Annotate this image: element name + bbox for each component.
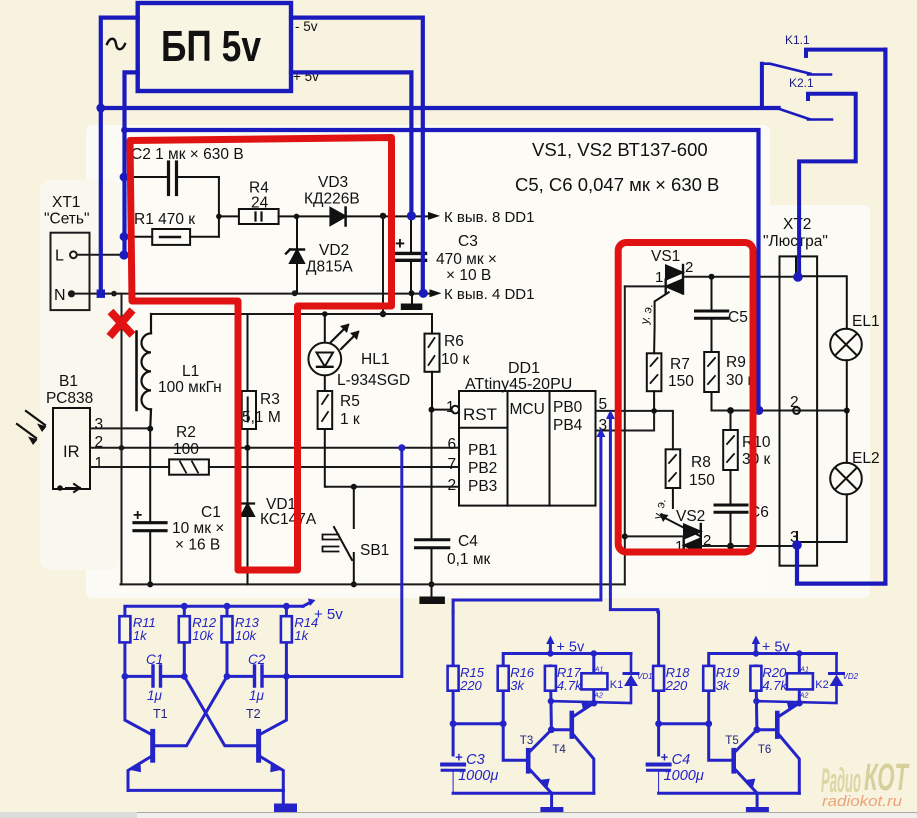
svg-text:R7: R7 xyxy=(670,356,690,373)
triac VS2 xyxy=(675,508,711,555)
svg-text:0,1 мк: 0,1 мк xyxy=(447,551,491,568)
rail VCC lower (L1 top / HL1 / R6) xyxy=(152,311,433,317)
wire RST pin1 xyxy=(432,399,460,416)
svg-text:БП 5v: БП 5v xyxy=(161,22,261,71)
wire VS1 term1 to common node xyxy=(625,285,666,287)
svg-text:PB4: PB4 xyxy=(553,417,583,434)
wire L (XT1 L to node) xyxy=(77,254,124,256)
svg-text:7: 7 xyxy=(448,456,457,473)
svg-text:1: 1 xyxy=(95,455,104,472)
wire PB0 (pin 5) to R8 xyxy=(596,408,673,449)
svg-text:1μ: 1μ xyxy=(249,688,265,703)
wire B1 pin3 to L1 bottom node xyxy=(90,426,153,432)
lamp EL2 xyxy=(797,411,880,543)
svg-text:220: 220 xyxy=(665,678,688,693)
svg-text:R5: R5 xyxy=(340,393,360,410)
svg-text:× 16 В: × 16 В xyxy=(175,537,220,554)
capacitor C6 xyxy=(715,504,769,549)
svg-text:× 10 В: × 10 В xyxy=(446,267,491,284)
svg-text:K1: K1 xyxy=(610,679,623,691)
svg-text:1μ: 1μ xyxy=(147,688,163,703)
label у.э. VS1 xyxy=(637,302,655,326)
svg-text:RST: RST xyxy=(463,405,497,424)
svg-text:100 мкГн: 100 мкГн xyxy=(158,379,222,396)
title VS1, VS2 BT137-600 xyxy=(532,139,708,160)
wire AC input 2 (to L node) xyxy=(119,72,137,259)
svg-text:VD3: VD3 xyxy=(318,174,348,191)
wire N rail (XT1 N to К выв.4 arrow) xyxy=(75,290,433,296)
svg-text:A2: A2 xyxy=(799,693,809,700)
resistor R5 1к xyxy=(318,391,360,487)
svg-text:"Люстра": "Люстра" xyxy=(763,233,828,250)
capacitor C4 1000u xyxy=(648,750,704,794)
svg-text:C4: C4 xyxy=(672,752,691,768)
svg-text:T4: T4 xyxy=(552,744,566,756)
transistor T4 xyxy=(551,701,593,793)
svg-text:С3: С3 xyxy=(458,233,478,250)
svg-text:SB1: SB1 xyxy=(360,542,389,559)
svg-text:T5: T5 xyxy=(725,735,738,747)
title C5, C6 0,047 мк × 630 В xyxy=(515,174,719,195)
svg-text:DD1: DD1 xyxy=(508,360,540,377)
multivibrator +5v rail xyxy=(125,599,343,677)
svg-text:PB0: PB0 xyxy=(553,399,583,416)
wire VS1 term2 to XT2 pin1 xyxy=(683,274,798,280)
relay K2 xyxy=(787,654,829,707)
svg-text:4.7k: 4.7k xyxy=(557,678,583,693)
vcc stub (pin8 rail down to lower rail) xyxy=(380,216,386,317)
capacitor C2 1u xyxy=(224,652,290,703)
svg-text:+ 5v: + 5v xyxy=(314,606,343,623)
bottom rail (GND) xyxy=(121,583,625,585)
svg-text:PB2: PB2 xyxy=(468,460,497,477)
wire C2/R1 right node to R4 xyxy=(216,177,239,237)
svg-text:radiokot.ru: radiokot.ru xyxy=(822,793,903,810)
svg-text:КС147А: КС147А xyxy=(260,511,317,528)
red highlight box (VS1/VS2 area) xyxy=(618,243,753,553)
triac VS1 xyxy=(651,248,693,294)
svg-text:В1: В1 xyxy=(59,373,78,390)
svg-text:10k: 10k xyxy=(192,628,214,643)
wire resistor leads R12-R14 xyxy=(184,606,286,676)
svg-text:HL1: HL1 xyxy=(361,351,389,368)
svg-text:"Сеть": "Сеть" xyxy=(44,211,89,228)
svg-text:100: 100 xyxy=(173,441,199,458)
IR receiver B1 PC838 xyxy=(17,373,103,492)
bottom scrollbar strip xyxy=(0,812,917,818)
relay contact K1.1 xyxy=(762,33,886,108)
svg-text:L-934SGD: L-934SGD xyxy=(337,372,410,389)
zener VD1 КС147А xyxy=(237,448,317,585)
relay contact K2.1 xyxy=(779,76,856,282)
svg-text:R2: R2 xyxy=(176,424,196,441)
wire VS2 term2 to XT2 pin3 xyxy=(701,545,797,547)
svg-text:C3: C3 xyxy=(466,752,485,768)
capacitor C3 470мк xyxy=(395,216,497,293)
svg-text:10 к: 10 к xyxy=(441,351,470,368)
svg-text:VD1: VD1 xyxy=(637,672,653,681)
wire PB4 (pin 3) to R7 xyxy=(596,411,655,431)
resistor R10 30к xyxy=(723,411,771,504)
+5v rail block K2 xyxy=(709,636,837,666)
node vertical VS1.1-VS2.1 xyxy=(622,286,628,584)
svg-text:1: 1 xyxy=(446,399,455,416)
relay K1 xyxy=(581,654,623,707)
resistor R9 30к xyxy=(704,352,754,411)
watermark Радио КОТ xyxy=(821,757,910,810)
+5v rail block K1 xyxy=(503,636,631,666)
capacitor C3 1000u xyxy=(442,750,498,794)
svg-text:PB1: PB1 xyxy=(468,442,497,459)
flyback diode VD1 xyxy=(551,654,653,704)
svg-text:R8: R8 xyxy=(691,454,711,471)
resistor R20 4.7k xyxy=(750,665,788,730)
svg-text:+: + xyxy=(395,234,405,253)
transistor T1 xyxy=(125,676,227,790)
svg-text:+: + xyxy=(455,750,463,765)
svg-text:EL2: EL2 xyxy=(852,450,880,467)
svg-text:+ 5v: + 5v xyxy=(762,640,791,656)
svg-text:R1 470 к: R1 470 к xyxy=(134,211,195,228)
svg-text:С5, С6 0,047 мк × 630 В: С5, С6 0,047 мк × 630 В xyxy=(515,174,719,195)
wire N to relay commons (long horizontal) xyxy=(96,104,778,113)
wire B1 pin2 / PB1 (pin 6) xyxy=(90,445,459,451)
ground rail block K1 xyxy=(453,793,594,814)
svg-text:10 мк ×: 10 мк × xyxy=(172,520,224,537)
red X cancellation mark xyxy=(110,310,133,337)
svg-text:T6: T6 xyxy=(758,744,771,756)
ground symbol at C4 xyxy=(419,584,445,604)
svg-text:N: N xyxy=(54,287,66,304)
resistor R7 150 xyxy=(647,292,694,411)
resistor R3 5,1М xyxy=(242,314,281,448)
svg-text:3k: 3k xyxy=(510,678,525,693)
svg-text:IR: IR xyxy=(63,443,80,461)
MCU DD1 ATtiny45-20PU xyxy=(448,360,608,506)
gate arrow VS2 xyxy=(660,514,701,537)
flyback diode VD2 xyxy=(756,654,858,704)
svg-text:K2.1: K2.1 xyxy=(789,76,814,90)
transistor T6 xyxy=(757,701,799,793)
svg-text:T2: T2 xyxy=(246,707,261,721)
svg-text:A1: A1 xyxy=(799,667,809,674)
zener VD2 Д815А xyxy=(286,216,353,293)
wire PB0 to R18 block xyxy=(606,410,658,612)
svg-text:L: L xyxy=(55,248,64,265)
svg-text:K1.1: K1.1 xyxy=(785,33,810,47)
svg-text:220: 220 xyxy=(459,678,482,693)
svg-text:R3: R3 xyxy=(260,391,280,408)
svg-text:К выв. 8 DD1: К выв. 8 DD1 xyxy=(444,209,534,226)
resistor R6 10к xyxy=(425,314,470,413)
wire AC input 1 (to N) xyxy=(97,18,138,298)
svg-text:150: 150 xyxy=(668,373,694,390)
svg-text:1k: 1k xyxy=(294,628,309,643)
svg-text:150: 150 xyxy=(689,472,715,489)
resistor R2 100 xyxy=(169,424,209,475)
ground rail block K2 xyxy=(659,793,800,814)
svg-text:С2 1 мк × 630 В: С2 1 мк × 630 В xyxy=(131,146,244,163)
svg-text:1k: 1k xyxy=(133,628,148,643)
svg-text:РС838: РС838 xyxy=(46,390,93,407)
resistor R15 220 xyxy=(448,612,485,755)
resistor R17 4.7k xyxy=(545,665,583,730)
transistor T5 xyxy=(725,726,760,793)
wire PB3 (pin 2) xyxy=(326,484,458,490)
wire VS2 term1 xyxy=(625,535,684,537)
svg-text:K2: K2 xyxy=(815,679,828,691)
capacitor C5 xyxy=(696,277,748,352)
node left column (C2/R1/L junction hidden under blue) xyxy=(123,177,125,255)
wire cancelled mains (N down to bottom rail, crossed by X) xyxy=(119,294,125,585)
svg-text:2: 2 xyxy=(685,259,693,276)
resistor R1 470к xyxy=(124,211,219,245)
resistor R12 10k xyxy=(179,615,217,643)
svg-text:MCU: MCU xyxy=(510,401,545,418)
resistor R18 220 xyxy=(653,612,690,755)
resistor R8 150 xyxy=(666,449,716,508)
resistor R11 1k xyxy=(119,615,155,643)
svg-text:3k: 3k xyxy=(716,678,731,693)
AC tilde symbol xyxy=(107,39,125,50)
connector XT1 "Сеть" xyxy=(44,194,90,310)
svg-text:С4: С4 xyxy=(458,533,478,550)
resistor R16 3k xyxy=(498,665,535,760)
capacitor C1 1u xyxy=(122,652,188,703)
capacitor C2 xyxy=(124,146,244,195)
resistor R14 1k xyxy=(281,615,318,643)
wire +5v output xyxy=(291,72,416,220)
svg-text:+ 5v: + 5v xyxy=(556,640,585,656)
svg-text:T3: T3 xyxy=(520,735,533,747)
transistor T3 xyxy=(520,726,555,793)
svg-text:T1: T1 xyxy=(153,707,168,721)
arrow К выв. 4 DD1 xyxy=(430,286,535,303)
ground symbol top xyxy=(401,293,423,310)
wire PB1 to multivibrator xyxy=(286,444,405,676)
svg-text:1 к: 1 к xyxy=(340,411,360,428)
svg-text:10k: 10k xyxy=(235,628,257,643)
svg-text:R6: R6 xyxy=(444,333,464,350)
svg-text:ХТ1: ХТ1 xyxy=(52,194,80,211)
svg-text:L1: L1 xyxy=(182,363,199,380)
diode VD3 КД226В xyxy=(304,174,432,226)
svg-text:A2: A2 xyxy=(593,693,603,700)
capacitor C1 10мк xyxy=(133,429,224,588)
arrow К выв. 8 DD1 xyxy=(428,209,534,226)
svg-text:С5: С5 xyxy=(728,309,748,326)
svg-text:С1: С1 xyxy=(201,504,221,521)
red highlight polygon (C2/R1/R4/VD2/VD3 area with tail) xyxy=(130,138,392,571)
power supply БП 5v box xyxy=(138,3,291,91)
svg-text:1: 1 xyxy=(655,269,663,286)
wire K1.1 to XT2 pin3 (right side loop) xyxy=(792,50,885,584)
svg-text:VS1, VS2 ВТ137-600: VS1, VS2 ВТ137-600 xyxy=(532,139,708,160)
multivibrator emitter rail + ground xyxy=(128,790,297,813)
svg-text:2: 2 xyxy=(448,477,457,494)
svg-text:EL1: EL1 xyxy=(852,313,880,330)
svg-text:R9: R9 xyxy=(726,354,746,371)
svg-text:VS2: VS2 xyxy=(676,508,705,525)
svg-text:VD2: VD2 xyxy=(843,672,859,681)
resistor R13 10k xyxy=(222,615,260,643)
svg-text:VS1: VS1 xyxy=(651,248,680,265)
svg-text:VD2: VD2 xyxy=(319,242,349,259)
svg-text:- 5v: - 5v xyxy=(295,19,318,34)
capacitor C4 0,1мк xyxy=(416,410,491,588)
wire R15 to R16 base node xyxy=(453,720,507,727)
connector XT2 "Люстра" xyxy=(763,216,828,566)
svg-text:Д815А: Д815А xyxy=(306,259,353,276)
svg-text:3: 3 xyxy=(95,416,104,433)
svg-text:PB3: PB3 xyxy=(468,478,497,495)
svg-text:+: + xyxy=(661,750,669,765)
svg-text:К выв. 4 DD1: К выв. 4 DD1 xyxy=(444,286,534,303)
svg-text:470 мк ×: 470 мк × xyxy=(436,251,497,268)
wire R18 to R19 base node xyxy=(659,720,713,727)
wire PB4 to R15 block xyxy=(453,428,605,612)
wire -5v output xyxy=(291,18,428,298)
svg-text:КД226В: КД226В xyxy=(304,191,360,208)
transistor T2 xyxy=(184,676,286,790)
button SB1 xyxy=(323,487,390,588)
lamp EL1 xyxy=(798,276,880,410)
svg-text:6: 6 xyxy=(448,436,457,453)
resistor R4 24 xyxy=(239,180,331,225)
svg-text:A1: A1 xyxy=(594,667,604,674)
wire lamp line (pin 2) xyxy=(712,407,850,414)
label у.э. VS2 xyxy=(650,497,668,521)
inductor L1 100мкГн xyxy=(137,314,222,429)
svg-text:4.7k: 4.7k xyxy=(762,678,788,693)
wire L node to XT2 pin2 (long horizontal) xyxy=(125,130,764,415)
LED HL1 L-934SGD xyxy=(308,314,410,391)
wire B1 pin1 / R2 / PB2 (pin 7) xyxy=(90,466,459,468)
resistor R19 3k xyxy=(703,665,739,760)
